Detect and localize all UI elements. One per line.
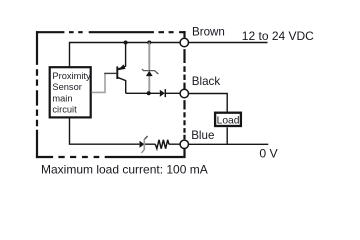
svg-text:Sensor: Sensor bbox=[52, 82, 81, 92]
terminal black bbox=[180, 89, 188, 97]
wire load to blue line bbox=[226, 127, 228, 144]
wire blue line from sensor box bbox=[70, 118, 181, 144]
svg-text:circuit: circuit bbox=[52, 105, 77, 115]
wire brown external bbox=[189, 42, 268, 44]
svg-text:0 V: 0 V bbox=[259, 146, 278, 160]
enclosure dashed border bottom bbox=[36, 156, 184, 158]
transistor Q1 PNP bbox=[117, 43, 125, 94]
load box bbox=[215, 113, 241, 127]
wire base lead grey from sensor box bbox=[92, 73, 117, 92]
wire black output line bbox=[126, 92, 180, 94]
svg-text:12 to 24 VDC: 12 to 24 VDC bbox=[242, 29, 314, 43]
junction dot emitter on brown rail bbox=[124, 41, 128, 45]
svg-text:Load: Load bbox=[217, 116, 240, 127]
terminal blue bbox=[180, 140, 188, 148]
svg-text:Brown: Brown bbox=[192, 26, 225, 39]
terminal brown bbox=[180, 38, 188, 46]
enclosure dashed border top bbox=[36, 31, 186, 33]
svg-text:Black: Black bbox=[192, 75, 221, 88]
svg-text:Proximity: Proximity bbox=[52, 71, 91, 81]
svg-text:Blue: Blue bbox=[191, 129, 214, 142]
svg-text:main: main bbox=[52, 93, 72, 103]
diode reverse protection on blue line bbox=[140, 136, 148, 153]
enclosure dashed border left bbox=[36, 31, 38, 158]
proximity sensor main circuit box bbox=[50, 67, 91, 117]
enclosure dashed border right bbox=[183, 31, 185, 158]
zener diode on grey column bbox=[142, 43, 159, 94]
svg-text:Maximum load current: 100 mA: Maximum load current: 100 mA bbox=[41, 162, 208, 176]
wire blue external bbox=[189, 143, 269, 145]
junction dot zener on brown rail bbox=[147, 41, 151, 45]
junction dot zener on black line bbox=[147, 91, 151, 95]
resistor on blue line bbox=[155, 140, 169, 149]
diode on black output bbox=[160, 89, 166, 97]
wire black external to load bbox=[189, 94, 228, 112]
wire brown rail from sensor box to terminal bbox=[70, 43, 181, 67]
